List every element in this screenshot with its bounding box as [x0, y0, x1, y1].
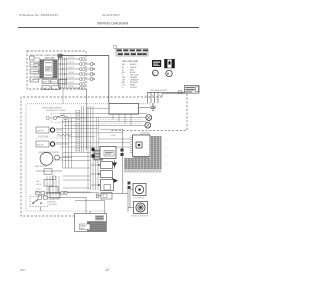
- svg-text:DOOR LOCK MOTOR: DOOR LOCK MOTOR: [131, 215, 149, 217]
- svg-text:VIOLET: VIOLET: [130, 87, 138, 89]
- connector at top wire start: [58, 54, 63, 58]
- svg-text:2 BK-W: 2 BK-W: [68, 62, 74, 64]
- lock control board white box: [133, 135, 151, 157]
- connector pins dark: [92, 148, 95, 151]
- middle harness horizontal wires: [63, 153, 91, 193]
- surface igniter 1 electrode: [50, 128, 54, 132]
- svg-text:2 BK-W: 2 BK-W: [68, 67, 74, 69]
- switch box B: [101, 162, 113, 169]
- console terminal rect: [109, 104, 139, 115]
- cross wires middle: [56, 129, 130, 147]
- UL listed mark: [152, 60, 161, 67]
- svg-text:BROIL: BROIL: [51, 82, 56, 84]
- small connector boxes bottom left row2: [38, 196, 86, 214]
- oven light door switch: [51, 114, 71, 123]
- svg-text:(SHOWN DOOR OPEN): (SHOWN DOOR OPEN): [46, 110, 66, 112]
- resistor comp right: [101, 193, 112, 200]
- motor feed wire: [100, 193, 128, 195]
- svg-text:IGN SW: IGN SW: [37, 130, 44, 132]
- svg-text:BLACK: BLACK: [130, 63, 137, 66]
- wire labels above rows: [68, 57, 74, 88]
- vertical harness bundle: [82, 106, 99, 190]
- EOC pin ticks right column: [53, 61, 56, 77]
- svg-text:(CLOSED): (CLOSED): [49, 204, 58, 206]
- spark module terminal strip: [88, 222, 106, 232]
- door switch box: [30, 62, 39, 67]
- svg-text:ORANGE: ORANGE: [130, 79, 139, 82]
- console rect drop wires: [113, 114, 131, 125]
- svg-text:GLGF376FS: GLGF376FS: [102, 13, 120, 17]
- circled mark right: [166, 70, 172, 76]
- border notch at power entry: [162, 94, 185, 97]
- strain relief on power wire: [179, 91, 183, 94]
- oven-to-console link wire at x63: [62, 89, 64, 104]
- spark module box: [75, 214, 107, 232]
- wire bus left components to bundle: [53, 119, 72, 169]
- box D with inner: [101, 180, 114, 191]
- lock board top pin ticks: [141, 132, 149, 135]
- svg-text:WIRING DIAGRAM: WIRING DIAGRAM: [97, 22, 128, 26]
- aux box row2 a: [42, 86, 50, 90]
- wire nut connector upper: [146, 115, 152, 121]
- bottom connector pair: [59, 191, 105, 214]
- step feeder wire: [100, 128, 123, 130]
- surface igniter 2 electrode: [50, 142, 54, 146]
- coil zigzag wire: [57, 134, 71, 137]
- misc tiny labels around EOC: [33, 58, 54, 80]
- switch box C: [101, 171, 113, 178]
- console distribution wires: [57, 108, 147, 125]
- ribbon connector: [94, 150, 104, 161]
- svg-text:RIGHT REAR: RIGHT REAR: [38, 135, 49, 138]
- svg-text:120V 60HZ SUPPLY: 120V 60HZ SUPPLY: [150, 90, 168, 92]
- lock board feed pins: [121, 149, 124, 152]
- oven-console trunk wire: [86, 110, 88, 150]
- bake relay box: [42, 80, 49, 84]
- small connector boxes bottom left row1: [36, 191, 60, 195]
- conv relay box: [59, 80, 66, 84]
- svg-text:2 BK-W: 2 BK-W: [68, 72, 74, 74]
- power cord terminal box: [185, 86, 200, 94]
- svg-text:12: 12: [106, 268, 110, 272]
- EOC control board U1: [40, 60, 57, 78]
- power feed wire: [148, 91, 185, 93]
- ribbon cable ladder: [76, 110, 80, 152]
- wire oven to console (top right corner run): [60, 56, 109, 104]
- extended connectors rows 2-5: [85, 63, 94, 81]
- vertical wire bus right of EOC: [59, 58, 67, 88]
- lock board caption row: [134, 157, 150, 158]
- svg-text:OVEN LIGHT SWITCH: OVEN LIGHT SWITCH: [42, 107, 62, 109]
- svg-text:2 BK-W: 2 BK-W: [68, 57, 74, 59]
- probe box: [30, 69, 39, 74]
- surface igniter 1 box: [36, 127, 49, 133]
- feeder wires to stack: [91, 165, 101, 185]
- svg-text:2 BK-W: 2 BK-W: [68, 77, 74, 79]
- range body outer dashed border: [21, 94, 187, 216]
- switch arm C arrow: [112, 178, 118, 184]
- spark module label box: [80, 224, 91, 230]
- oven harness wire rows with plug connectors: [58, 58, 85, 89]
- spark module drop wires: [89, 211, 91, 214]
- note band fringe rows: [124, 169, 162, 172]
- ground link wire: [139, 107, 151, 109]
- svg-text:GRAY: GRAY: [130, 84, 136, 87]
- broil relay box: [51, 80, 58, 84]
- header rule: [18, 27, 199, 29]
- wires from left boxes to EOC: [34, 58, 40, 80]
- wire color code list: [122, 63, 139, 89]
- gas valve row: [36, 170, 62, 172]
- svg-text:2 W-BK: 2 W-BK: [110, 135, 117, 137]
- svg-text:wire color code: wire color code: [123, 60, 139, 63]
- switch exit wires: [67, 117, 86, 119]
- console inner dotted border: [26, 104, 150, 211]
- registered mark near caution box: [113, 45, 117, 49]
- wire to bottom border: [40, 207, 42, 212]
- caution note box: [116, 49, 148, 57]
- lock board pin ticks: [130, 138, 133, 153]
- svg-text:2 BK-W: 2 BK-W: [68, 82, 74, 84]
- lock board inner square: [136, 142, 142, 148]
- lamp box: [30, 77, 39, 82]
- oven igniter big circle: [40, 152, 53, 165]
- latch motor M2: [134, 202, 148, 214]
- note text band bottom: [124, 158, 150, 169]
- clock connector box: [30, 56, 35, 60]
- EOC pin ticks left column: [40, 60, 43, 77]
- svg-text:BAKE IGNITER: BAKE IGNITER: [35, 165, 48, 168]
- chassis ground symbol: [150, 103, 156, 110]
- svg-text:SENS: SENS: [31, 72, 37, 74]
- aux box row2 b: [52, 86, 60, 90]
- motor connectors: [128, 182, 131, 185]
- switch arm B arrow: [112, 163, 117, 168]
- svg-text:LIGHT: LIGHT: [43, 88, 48, 90]
- separator dashed: [36, 137, 70, 139]
- valve cluster: [44, 176, 60, 198]
- wire nut connector lower: [145, 122, 151, 128]
- anti-tip switch dashed box: [30, 197, 48, 207]
- svg-text:c: c: [153, 71, 155, 76]
- svg-text:Publication No: 5995410143: Publication No: 5995410143: [19, 13, 58, 17]
- circled mark left: [152, 70, 158, 76]
- igniter small circle: [55, 155, 60, 160]
- svg-text:IGN SW: IGN SW: [37, 144, 44, 146]
- EOC center label: [46, 67, 52, 72]
- spark module upper mush: [95, 215, 104, 220]
- bus pair lines: [96, 117, 99, 149]
- svg-text:2 BK-W: 2 BK-W: [68, 86, 74, 88]
- wire harness oven to console at x86: [86, 89, 88, 110]
- vertical from lock board: [122, 129, 124, 193]
- svg-text:LOCK MOTOR: LOCK MOTOR: [133, 197, 145, 199]
- canada flag mark: [165, 59, 175, 68]
- svg-text:8/07: 8/07: [20, 268, 26, 272]
- surface igniter 2 box: [36, 141, 49, 147]
- lock motor M1: [133, 184, 146, 196]
- relay box A: [100, 147, 116, 159]
- oven compartment dashed border: [27, 51, 86, 89]
- L1 N G drop wires: [148, 92, 159, 103]
- note text band right: [150, 136, 162, 169]
